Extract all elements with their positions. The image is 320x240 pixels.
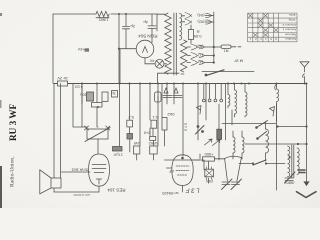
svg-text:Antenne 2: Antenne 2: [282, 23, 296, 27]
svg-text:(02): (02): [197, 20, 205, 25]
svg-text:(680): (680): [284, 180, 294, 185]
svg-text:(4): (4): [197, 60, 203, 65]
svg-text:2µ: 2µ: [130, 24, 135, 29]
svg-text:UW: UW: [134, 141, 141, 146]
svg-text:4V: 4V: [149, 59, 154, 64]
svg-text:13kΩ: 13kΩ: [99, 18, 108, 23]
svg-text:RES 164: RES 164: [107, 188, 126, 193]
svg-text:Erde: Erde: [289, 13, 296, 17]
svg-text:Dr 2V: Dr 2V: [57, 76, 68, 81]
svg-text:M 87: M 87: [233, 59, 243, 64]
svg-text:+1/2: +1/2: [74, 84, 83, 89]
svg-text:L 3 F: L 3 F: [186, 187, 200, 193]
svg-text:17µV: 17µV: [113, 153, 123, 158]
svg-text:RGN 564: RGN 564: [138, 33, 158, 38]
svg-text:Grog: Grog: [288, 18, 295, 22]
svg-text:1: 1: [249, 37, 251, 41]
svg-text:Schalter: Schalter: [285, 37, 296, 41]
svg-text:2: 2: [255, 37, 257, 41]
svg-text:+4V: +4V: [77, 47, 85, 52]
svg-text:1µ: 1µ: [111, 92, 116, 97]
svg-text:2+0: 2+0: [143, 131, 151, 136]
svg-text:(50): (50): [205, 179, 213, 184]
svg-text:0,55: 0,55: [193, 34, 202, 39]
svg-text:Rahmen: Rahmen: [285, 32, 297, 36]
svg-text:0A2: 0A2: [167, 112, 175, 117]
svg-text:RU 3 WF: RU 3 WF: [8, 104, 18, 141]
svg-text:R: R: [288, 155, 291, 160]
svg-text:10µ: 10µ: [80, 93, 87, 98]
svg-text:3: 3: [260, 37, 262, 41]
svg-text:R: R: [197, 29, 200, 34]
svg-text:w=95420: w=95420: [161, 191, 178, 196]
svg-text:(04): (04): [197, 13, 205, 18]
svg-text:6: 6: [275, 37, 277, 41]
svg-text:UW2: UW2: [148, 141, 158, 146]
svg-text:4µ: 4µ: [143, 20, 148, 25]
svg-text:4: 4: [265, 37, 267, 41]
svg-text:R1: R1: [223, 49, 229, 54]
svg-text:5 4 5: 5 4 5: [184, 123, 188, 131]
svg-text:Antenne 1: Antenne 1: [282, 28, 296, 32]
svg-text:www.h.oer: www.h.oer: [74, 193, 92, 197]
svg-text:Radio-Union,: Radio-Union,: [10, 156, 16, 187]
svg-text:+500: +500: [204, 152, 214, 157]
svg-text:AF: AF: [168, 169, 174, 174]
svg-text:0,2: 0,2: [128, 115, 134, 120]
svg-text:5: 5: [270, 37, 272, 41]
svg-text:0,1: 0,1: [152, 115, 158, 120]
svg-text:(85): (85): [196, 45, 204, 50]
svg-text:5mA 1kΩ: 5mA 1kΩ: [72, 167, 88, 172]
svg-text:(7): (7): [197, 53, 203, 58]
